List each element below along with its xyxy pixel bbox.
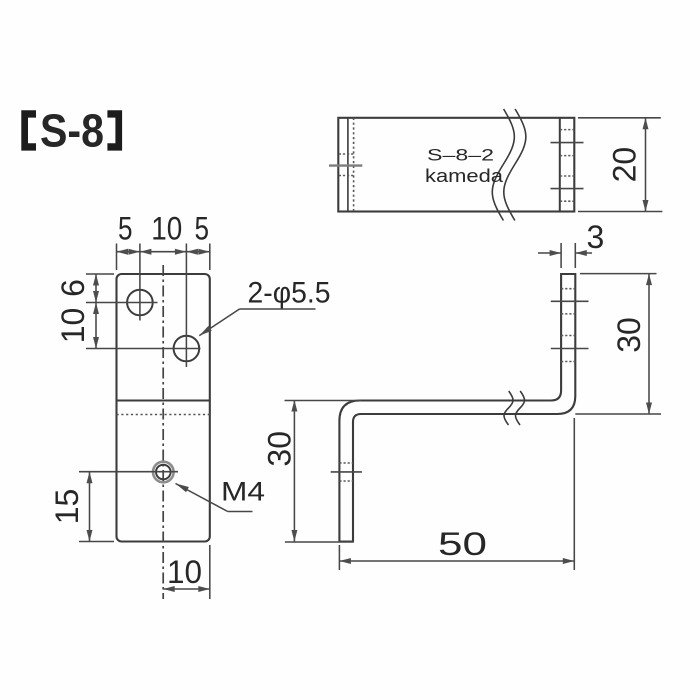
side view break line 2 <box>516 391 525 425</box>
M4 hole inner circle <box>156 465 171 480</box>
top view break line 1 <box>492 109 514 221</box>
dim 30 right: top extension line <box>580 273 657 275</box>
svg-text:M4: M4 <box>221 477 265 507</box>
dim 50: dimension line <box>339 560 574 562</box>
dim 6 top extension line <box>86 273 114 275</box>
dim 30 right: dimension line <box>648 274 650 414</box>
dim 30 left arrowheads <box>291 400 297 542</box>
side view Z profile outline <box>339 274 575 542</box>
M4 hole horizontal crosshair / extension <box>79 471 178 473</box>
dim 3 left extension line <box>560 243 562 268</box>
dim 6 arrowheads <box>93 274 99 303</box>
svg-text:30: 30 <box>262 431 298 467</box>
svg-text:20: 20 <box>607 147 643 183</box>
dim 15 bottom extension line <box>79 541 114 543</box>
svg-text:5: 5 <box>118 211 133 247</box>
dim 20 bottom extension line <box>578 211 662 213</box>
bend line solid <box>117 400 210 402</box>
top view M4 center mark (gray) <box>329 164 362 166</box>
svg-text:10: 10 <box>151 211 182 247</box>
side view hole1 center line <box>551 300 589 302</box>
dim 15 dimension line <box>89 472 91 542</box>
dim 5-10-5 extension line right <box>209 244 211 271</box>
top view right leg tangent line <box>559 118 561 212</box>
hole 1 vertical crosshair <box>139 244 141 321</box>
side view hole1 hidden edges on right leg <box>561 288 575 290</box>
top view break line 2 <box>504 109 526 221</box>
dim 50: left extension line <box>338 545 340 570</box>
dim 30 right: bottom extension line (continues bottom surface) <box>575 413 661 415</box>
hole 2 horizontal crosshair / extension <box>86 348 201 350</box>
dim 20 arrowheads <box>643 118 649 212</box>
svg-text:15: 15 <box>49 489 85 525</box>
front view vertical centerline <box>162 265 164 599</box>
svg-text:3: 3 <box>587 219 605 255</box>
top view hole2 center line <box>551 188 584 190</box>
dim 10 arrowheads <box>93 303 99 349</box>
dim 3 left shaft <box>538 252 561 254</box>
hole 1 horizontal crosshair / extension <box>86 302 158 304</box>
dim 30 left: bottom extension line <box>285 541 353 543</box>
bend line dotted <box>117 414 210 416</box>
front view outline <box>117 274 210 542</box>
svg-text:10: 10 <box>167 554 202 590</box>
dim 10 bottom dimension line <box>163 588 210 590</box>
svg-text:6: 6 <box>55 279 91 297</box>
dim 5-10-5 arrowheads <box>117 249 210 255</box>
dim 20 top extension line <box>578 117 661 119</box>
dim 50 arrowheads <box>339 558 574 564</box>
dim 5-10-5 extension line left <box>116 244 118 271</box>
leader 2-phi5.5 open arrowhead <box>199 326 212 336</box>
dim 10 bottom arrowheads <box>163 586 210 592</box>
dim 10 bottom right extension line <box>209 545 211 599</box>
dim 50: right extension line <box>573 418 575 570</box>
side view hole2 center line <box>551 348 589 350</box>
part label right bracket <box>107 110 122 150</box>
dim 3 right shaft <box>575 252 592 254</box>
side view hole2 hidden edges on right leg <box>561 335 575 337</box>
svg-text:S-8: S-8 <box>40 105 104 157</box>
dim 30 left: dimension line <box>293 400 295 542</box>
dim 3 right extension line <box>574 243 576 268</box>
dim 20 dimension line <box>645 118 647 212</box>
top view outline <box>338 118 574 212</box>
top view hidden hole2 edges (dashes) <box>560 175 574 177</box>
svg-text:S–8–2: S–8–2 <box>427 147 494 165</box>
svg-text:30: 30 <box>611 317 647 353</box>
top view hidden M4 hole edge (upper dash) <box>339 153 354 155</box>
top view left bend tangent line (solid) <box>347 118 349 212</box>
svg-text:10: 10 <box>55 308 91 344</box>
dim 15 arrowheads <box>87 472 93 542</box>
leader M4 underline <box>228 511 253 513</box>
side view M4 center line <box>331 471 362 473</box>
side view break line 1 <box>504 391 513 425</box>
M4 tapped hole outer thread ring <box>153 462 174 483</box>
dim 5-10-5 dimension line <box>117 251 210 253</box>
side view M4 hidden edges on left leg <box>339 462 353 464</box>
part label [S-8] left bracket <box>21 110 36 150</box>
svg-text:kameda: kameda <box>425 165 504 186</box>
top view hidden hole1 edges (dashes) <box>560 129 574 131</box>
dim 10 dimension line (left) <box>95 303 97 349</box>
top view hole1 center line <box>551 142 584 144</box>
top view hidden M4 hole edge (lower dash) <box>339 175 354 177</box>
leader M4 arrowhead (open) <box>176 484 189 493</box>
hole 1 (phi5.5 upper-left) <box>127 290 153 316</box>
svg-text:2-φ5.5: 2-φ5.5 <box>248 277 331 310</box>
dim 3 arrowheads (outside) <box>550 250 587 256</box>
svg-text:5: 5 <box>195 211 210 247</box>
svg-text:50: 50 <box>438 526 487 562</box>
hole 2 vertical crosshair <box>185 244 187 368</box>
hole 2 (phi5.5 lower-right) <box>174 336 200 362</box>
leader 2-phi5.5 underline <box>240 308 316 310</box>
dim 6 dimension line <box>95 274 97 303</box>
dim 30 left: top extension line <box>285 400 362 402</box>
top view left bend line (dotted) <box>353 118 355 212</box>
dim 30 right arrowheads <box>646 274 652 414</box>
leader 2-phi5.5 diagonal <box>199 309 239 336</box>
leader M4 diagonal <box>176 484 228 512</box>
